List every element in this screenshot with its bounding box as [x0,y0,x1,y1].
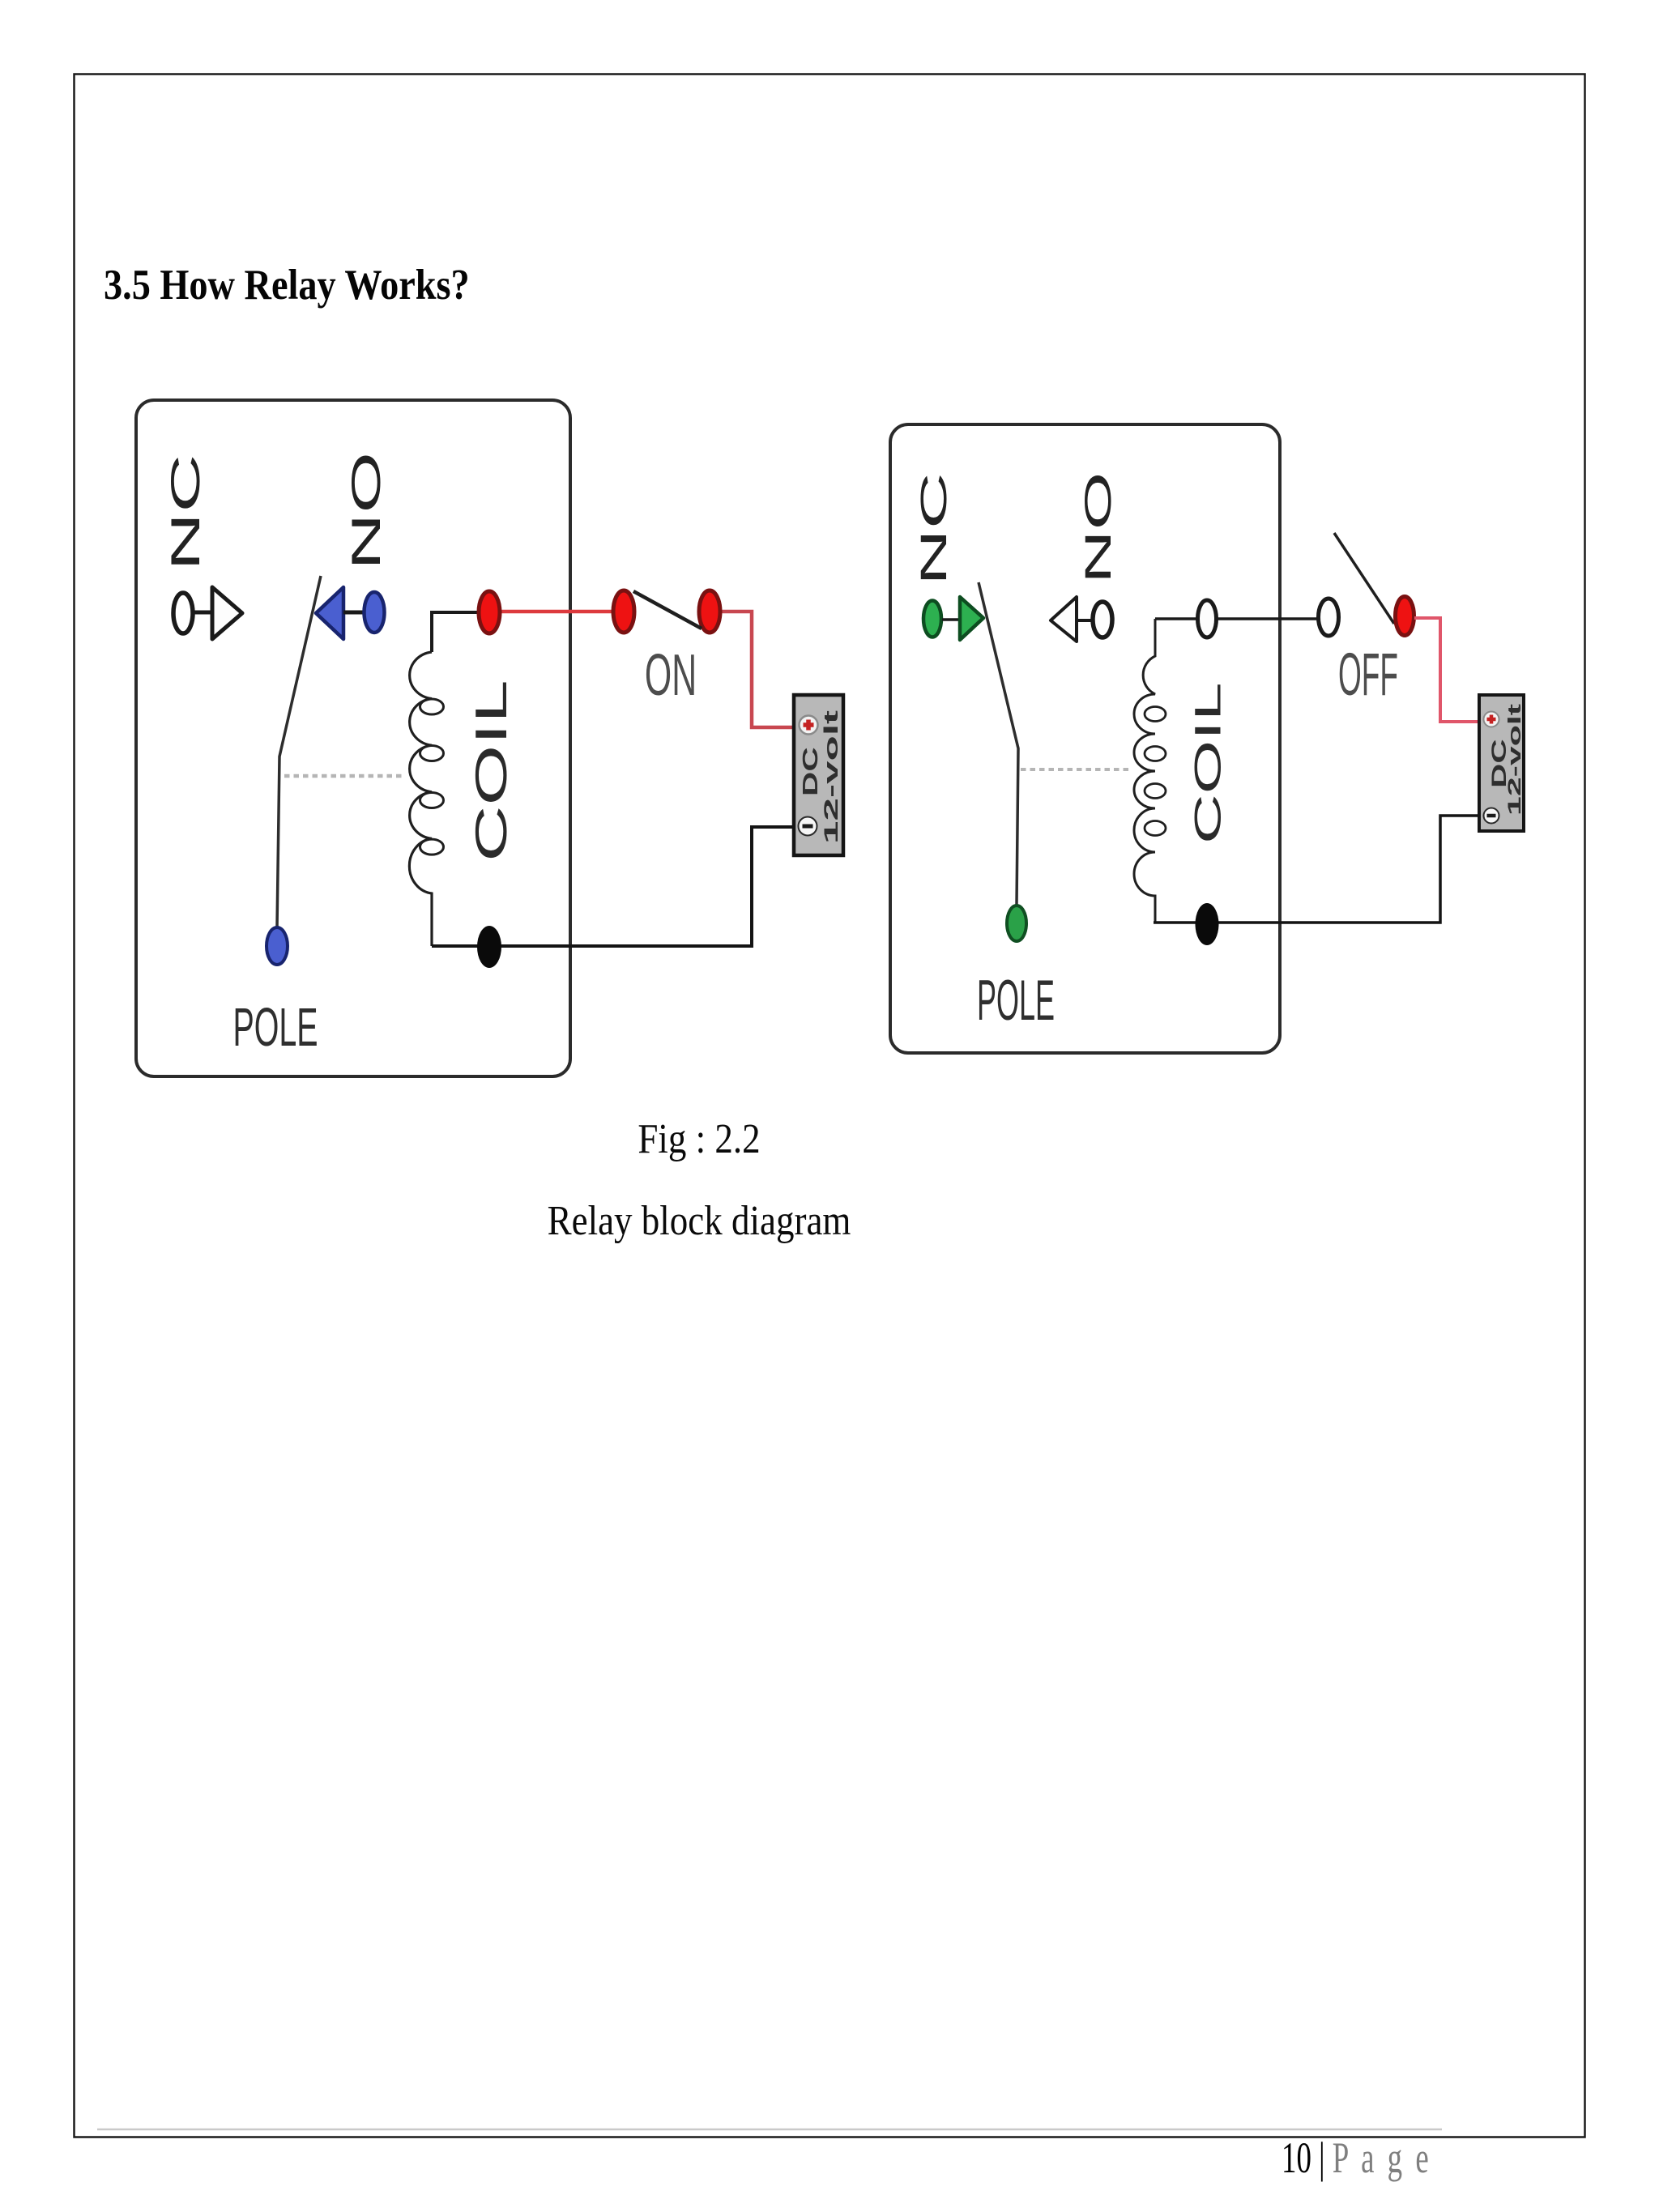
coil plus node red dot (left) [479,591,500,633]
switch terminal circle (right) [1319,599,1339,636]
POLE terminal dot (blue, left) [267,927,288,965]
NO contact arrow (open, right) [1051,597,1077,641]
OFF switch lever (open) [1334,533,1394,624]
battery left minus symbol [799,817,817,836]
ON switch right terminal red dot [699,590,720,633]
NO terminal circle (open, right) [1093,602,1112,637]
coil loop 4 (left) [420,839,444,855]
coil terminal circle (right) [1198,600,1217,637]
battery right body [1479,695,1524,831]
NC contact terminal circle (left) [173,593,193,633]
coil winding (right) [1134,619,1155,923]
coil minus node black dot (left) [477,926,501,968]
wire NC stub (left) [193,611,214,615]
bottom wire coil to battery minus (left) [432,827,794,946]
red wire switch to battery plus (right) [1414,618,1479,722]
relay box right [890,424,1280,1053]
NO contact arrow (blue, left) [316,587,343,639]
ON switch left terminal red dot [613,590,634,633]
NC contact arrow (green, right) [960,597,983,640]
svg-text:ON: ON [645,641,697,708]
svg-text:POLE: POLE [977,969,1055,1032]
NC terminal dot (green, right) [923,601,941,637]
coil winding (left) [409,652,432,946]
svg-text:COIL: COIL [466,680,516,862]
POLE terminal dot (green, right) [1007,906,1026,941]
coil loop 2 (left) [420,746,444,761]
svg-text:NC: NC [162,454,207,571]
svg-text:10 | P a g e: 10 | P a g e [1282,2133,1431,2181]
red wire coil plus to switch and battery (left) [489,610,624,614]
svg-text:Fig : 2.2: Fig : 2.2 [638,1116,760,1162]
mechanical link dashed line (left) [284,774,403,778]
OFF switch right terminal red dot [1396,597,1414,636]
svg-text:NO: NO [1078,472,1119,584]
coil loop 2 (right) [1145,747,1166,761]
coil loop 3 (left) [420,793,444,808]
wire NC stub (right) [942,618,961,621]
battery left plus symbol [800,716,818,735]
mechanical link dashed line (right) [1021,768,1131,771]
pole arm (left, on NO) [277,576,321,927]
svg-text:NO: NO [343,452,388,570]
NC contact arrow (open, left) [212,587,242,639]
ON switch lever (closed) [633,591,702,629]
svg-text:12-volt: 12-volt [1505,704,1525,816]
coil loop 1 (right) [1145,707,1166,722]
NO terminal dot (blue, left) [365,592,385,633]
footer rule [97,2129,1442,2131]
coil top wire to switch (right) [1155,617,1329,620]
battery right plus symbol [1484,712,1499,727]
coil loop 4 (right) [1145,821,1166,836]
svg-text:3.5 How Relay Works?: 3.5 How Relay Works? [104,261,470,308]
svg-text:POLE: POLE [232,996,318,1058]
svg-text:OFF: OFF [1338,641,1398,708]
coil loop 1 (left) [420,699,444,714]
red wire from ON switch to battery plus (left) [710,612,794,727]
svg-text:DC: DC [799,747,822,796]
wire NO stub (left) [343,611,365,615]
svg-text:NC: NC [913,472,953,586]
battery right minus symbol [1484,808,1499,824]
coil loop 3 (right) [1145,784,1166,799]
bottom wire coil to battery minus (right) [1154,816,1479,923]
svg-text:COIL: COIL [1188,682,1228,844]
svg-text:Relay block diagram: Relay block diagram [548,1198,851,1244]
battery left body [794,695,843,855]
pole arm (right, on NC) [979,582,1018,905]
relay box left [136,400,570,1076]
coil minus node black dot (right) [1196,903,1219,945]
svg-text:12-volt: 12-volt [821,710,842,844]
coil top wire (left) [432,612,489,652]
wire NO stub (right) [1077,619,1094,622]
